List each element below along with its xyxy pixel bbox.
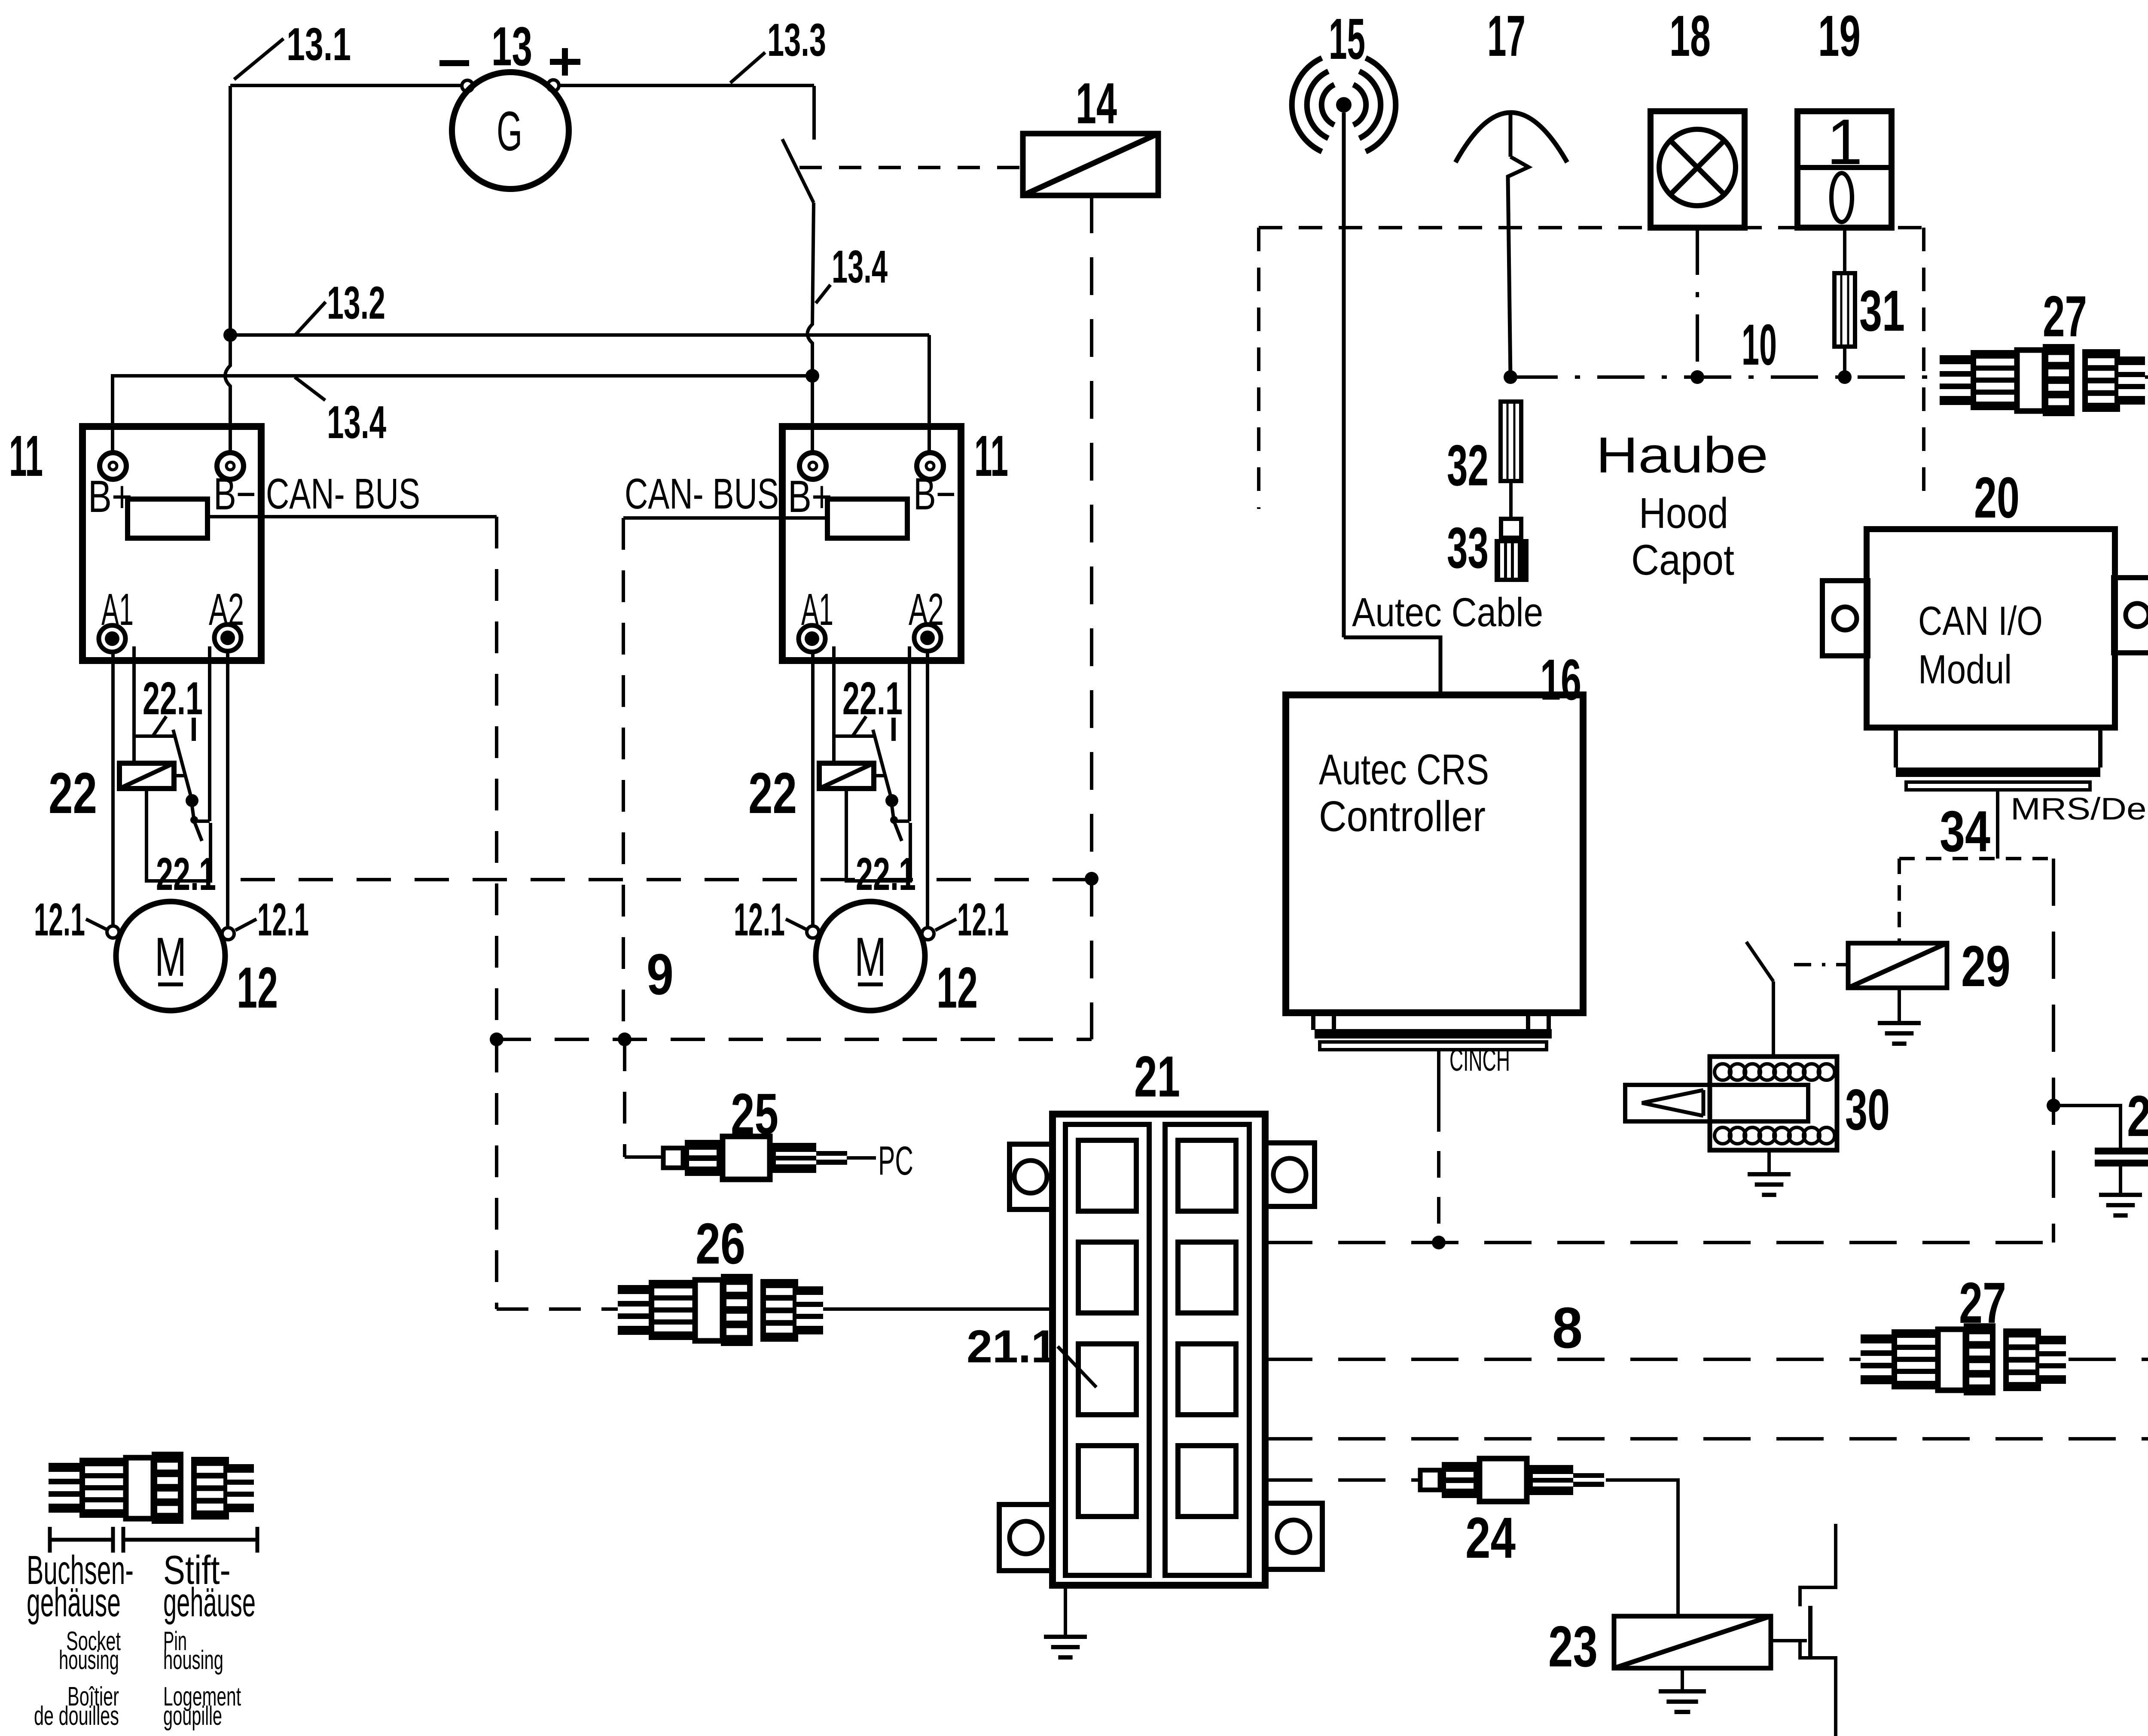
svg-text:8: 8 xyxy=(1552,1295,1583,1360)
svg-text:11: 11 xyxy=(974,423,1008,488)
svg-text:12: 12 xyxy=(937,955,978,1020)
svg-text:12.1: 12.1 xyxy=(257,893,309,945)
svg-text:34: 34 xyxy=(1940,799,1990,864)
svg-text:13.3: 13.3 xyxy=(767,14,826,66)
svg-text:A2: A2 xyxy=(909,585,944,635)
svg-text:Modul: Modul xyxy=(1918,647,2012,692)
svg-text:M: M xyxy=(155,926,186,988)
svg-text:27: 27 xyxy=(2043,284,2087,349)
svg-text:B−: B− xyxy=(214,469,256,519)
svg-text:32: 32 xyxy=(1447,433,1489,498)
svg-text:22: 22 xyxy=(49,761,97,825)
svg-text:28: 28 xyxy=(2127,1084,2148,1148)
svg-text:MRS/Delphi: MRS/Delphi xyxy=(2011,792,2148,826)
svg-text:Controller: Controller xyxy=(1319,792,1486,841)
svg-text:gehäuse: gehäuse xyxy=(163,1580,256,1625)
svg-text:30: 30 xyxy=(1845,1077,1890,1142)
svg-text:25: 25 xyxy=(731,1081,778,1146)
svg-text:10: 10 xyxy=(1742,312,1777,377)
svg-text:16: 16 xyxy=(1540,647,1581,712)
svg-text:26: 26 xyxy=(696,1211,745,1276)
svg-text:Autec CRS: Autec CRS xyxy=(1319,746,1489,794)
svg-text:M: M xyxy=(854,926,886,988)
svg-text:22.1: 22.1 xyxy=(842,672,903,724)
svg-text:Haube: Haube xyxy=(1596,427,1768,484)
svg-text:22.1: 22.1 xyxy=(143,672,203,724)
svg-text:19: 19 xyxy=(1818,3,1861,68)
svg-text:Autec Cable: Autec Cable xyxy=(1352,590,1543,635)
svg-text:12.1: 12.1 xyxy=(734,893,785,945)
svg-text:1: 1 xyxy=(1827,106,1862,178)
svg-text:A1: A1 xyxy=(801,585,833,635)
svg-text:21.1: 21.1 xyxy=(967,1320,1057,1372)
svg-text:B−: B− xyxy=(913,469,956,519)
svg-text:11: 11 xyxy=(9,423,43,488)
svg-text:A2: A2 xyxy=(209,585,244,635)
svg-text:33: 33 xyxy=(1447,515,1489,580)
svg-text:12: 12 xyxy=(237,955,278,1020)
svg-text:Hood: Hood xyxy=(1639,489,1728,537)
svg-text:18: 18 xyxy=(1669,3,1711,68)
svg-text:14: 14 xyxy=(1076,71,1117,136)
svg-text:housing: housing xyxy=(163,1645,223,1675)
svg-text:13: 13 xyxy=(491,16,532,77)
svg-text:A1: A1 xyxy=(101,585,134,635)
svg-text:12.1: 12.1 xyxy=(34,893,85,945)
svg-text:13.1: 13.1 xyxy=(287,18,351,70)
svg-text:24: 24 xyxy=(1465,1505,1516,1570)
svg-text:G: G xyxy=(497,100,522,162)
svg-text:23: 23 xyxy=(1548,1614,1598,1679)
svg-text:goupille: goupille xyxy=(163,1701,222,1731)
svg-text:31: 31 xyxy=(1859,278,1905,343)
svg-text:gehäuse: gehäuse xyxy=(27,1580,121,1625)
svg-text:13.4: 13.4 xyxy=(832,241,888,292)
svg-text:17: 17 xyxy=(1487,3,1526,68)
svg-text:Capot: Capot xyxy=(1631,536,1734,584)
svg-text:CAN- BUS: CAN- BUS xyxy=(625,470,779,518)
svg-text:12.1: 12.1 xyxy=(957,893,1009,945)
svg-text:13.2: 13.2 xyxy=(327,277,385,329)
svg-text:22.1: 22.1 xyxy=(856,848,916,900)
svg-text:de douilles: de douilles xyxy=(34,1701,119,1731)
svg-text:22.1: 22.1 xyxy=(156,848,216,900)
svg-text:CAN I/O: CAN I/O xyxy=(1918,598,2043,644)
svg-text:20: 20 xyxy=(1974,465,2020,530)
svg-text:PC: PC xyxy=(878,1138,913,1184)
svg-text:15: 15 xyxy=(1329,6,1365,71)
svg-text:21: 21 xyxy=(1134,1044,1180,1109)
svg-text:27: 27 xyxy=(1959,1270,2006,1335)
svg-text:9: 9 xyxy=(647,942,674,1007)
svg-text:CINCH: CINCH xyxy=(1449,1043,1510,1078)
svg-text:29: 29 xyxy=(1961,934,2011,999)
svg-text:CAN- BUS: CAN- BUS xyxy=(266,470,420,518)
svg-text:13.4: 13.4 xyxy=(327,396,386,448)
svg-text:22: 22 xyxy=(748,761,797,825)
svg-text:housing: housing xyxy=(59,1645,119,1675)
